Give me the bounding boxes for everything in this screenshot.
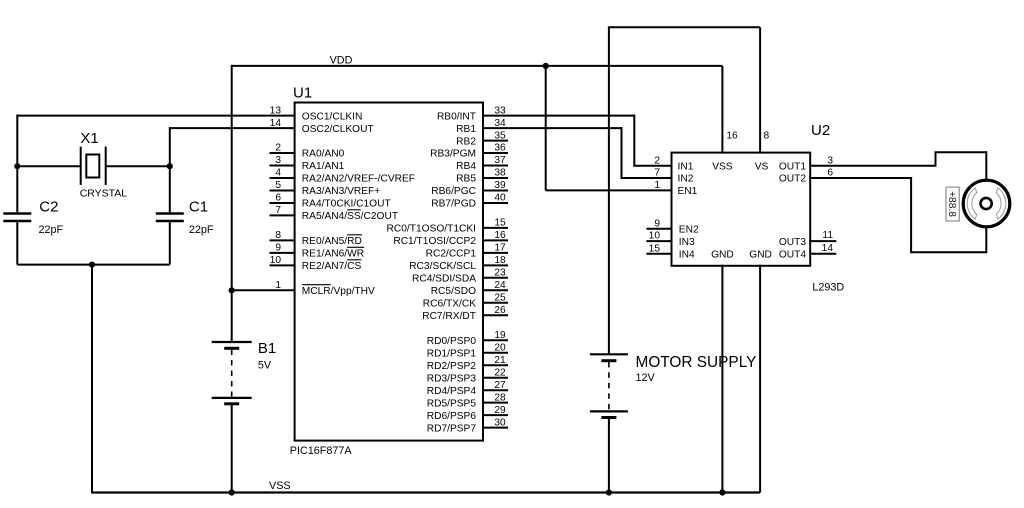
- svg-text:7: 7: [275, 205, 281, 216]
- wire VDD down to MCLR and battery B1: [231, 65, 233, 343]
- svg-text:U1: U1: [293, 85, 312, 102]
- svg-text:22pF: 22pF: [189, 224, 214, 236]
- junction capacitor bottom to VSS: [89, 262, 95, 268]
- svg-text:RC7/RX/DT: RC7/RX/DT: [422, 311, 476, 322]
- svg-text:RA0/AN0: RA0/AN0: [302, 149, 345, 160]
- svg-text:24: 24: [494, 280, 506, 291]
- svg-text:RC4/SDI/SDA: RC4/SDI/SDA: [412, 274, 476, 285]
- svg-text:25: 25: [494, 293, 506, 304]
- svg-text:RD6/PSP6: RD6/PSP6: [427, 411, 477, 422]
- svg-text:21: 21: [494, 355, 506, 366]
- U2 GND pin 2: [749, 250, 772, 493]
- U1 pin 23: [412, 268, 508, 285]
- svg-text:RB3/PGM: RB3/PGM: [430, 149, 476, 160]
- svg-text:U2: U2: [811, 122, 830, 139]
- svg-text:8: 8: [764, 131, 770, 142]
- svg-text:OUT2: OUT2: [779, 174, 807, 185]
- wire capacitor bottoms: [17, 264, 170, 266]
- battery MOTOR SUPPLY 12V: [590, 354, 756, 493]
- U1 pin 9: [270, 243, 365, 260]
- U1 pin 15: [387, 218, 508, 235]
- svg-text:EN1: EN1: [678, 186, 698, 197]
- wire OUT2 to motor: [809, 177, 986, 253]
- svg-text:7: 7: [654, 168, 660, 179]
- svg-text:6: 6: [827, 168, 833, 179]
- svg-text:RC0/T1OSO/T1CKI: RC0/T1OSO/T1CKI: [387, 224, 476, 235]
- capacitor C2: [3, 165, 63, 264]
- svg-text:2: 2: [275, 143, 281, 154]
- U1 pin 37: [456, 155, 508, 172]
- svg-text:VS: VS: [755, 161, 769, 172]
- U1 pin 14: [270, 118, 374, 135]
- U1 pin 13: [270, 105, 363, 122]
- svg-text:RD1/PSP1: RD1/PSP1: [427, 348, 477, 359]
- svg-text:10: 10: [270, 255, 282, 266]
- svg-text:29: 29: [494, 405, 506, 416]
- svg-text:VSS: VSS: [712, 161, 733, 172]
- U1 pin 4: [270, 168, 416, 185]
- svg-text:OSC1/CLKIN: OSC1/CLKIN: [302, 111, 363, 122]
- U1 pin 36: [430, 143, 508, 160]
- svg-text:RB6/PGC: RB6/PGC: [431, 186, 476, 197]
- U1 pin 39: [431, 180, 508, 197]
- U1 pin 33: [437, 105, 506, 122]
- svg-text:EN2: EN2: [679, 224, 699, 235]
- crystal X1: [80, 130, 128, 200]
- U2 pin 8 VS: [755, 27, 770, 172]
- svg-text:RB2: RB2: [456, 136, 476, 147]
- U1 pin 6: [270, 193, 391, 210]
- svg-text:RD0/PSP0: RD0/PSP0: [427, 336, 477, 347]
- U1 pin 2: [270, 143, 345, 160]
- svg-text:23: 23: [494, 268, 506, 279]
- svg-text:RE0/AN5/RD: RE0/AN5/RD: [302, 236, 362, 247]
- U1 pin 5: [270, 180, 381, 197]
- U1 pin 22: [427, 367, 508, 384]
- U1 pin 7: [270, 205, 399, 222]
- svg-text:RE1/AN6/WR: RE1/AN6/WR: [302, 249, 364, 260]
- U1 pin 18: [409, 255, 508, 272]
- svg-text:17: 17: [494, 243, 506, 254]
- svg-text:IN4: IN4: [679, 250, 695, 261]
- svg-text:RA2/AN2/VREF-/CVREF: RA2/AN2/VREF-/CVREF: [302, 174, 415, 185]
- svg-text:30: 30: [494, 417, 506, 428]
- U1 pin 38: [456, 168, 508, 185]
- U1 pin 20: [427, 342, 508, 359]
- IC U2 L293D motor driver: [672, 122, 845, 294]
- svg-text:RB4: RB4: [456, 161, 476, 172]
- svg-text:OUT1: OUT1: [779, 161, 807, 172]
- wire down to VSS rail: [91, 265, 93, 494]
- U2 pin 1 EN1: [654, 180, 697, 197]
- U1 pin 10: [270, 255, 362, 272]
- svg-text:RD4/PSP4: RD4/PSP4: [427, 386, 477, 397]
- svg-text:B1: B1: [258, 340, 276, 357]
- U1 pin 34: [456, 118, 506, 135]
- svg-text:RB1: RB1: [456, 124, 476, 135]
- svg-text:GND: GND: [749, 250, 772, 261]
- svg-text:28: 28: [494, 392, 506, 403]
- svg-text:RC1/T1OSI/CCP2: RC1/T1OSI/CCP2: [393, 236, 476, 247]
- U1 pin 3: [270, 155, 345, 172]
- svg-text:RD2/PSP2: RD2/PSP2: [427, 361, 477, 372]
- svg-text:18: 18: [494, 255, 506, 266]
- wire VDD to EN1: [546, 66, 673, 190]
- svg-text:19: 19: [494, 330, 506, 341]
- junction VDD/EN1: [543, 63, 549, 69]
- svg-text:2: 2: [654, 155, 660, 166]
- motor value display +88.8: [946, 187, 959, 221]
- U2 pin 3 OUT1: [779, 155, 834, 172]
- U1 pin 27: [427, 380, 508, 397]
- U1 pin 25: [423, 293, 508, 310]
- svg-text:+88.8: +88.8: [946, 191, 957, 217]
- svg-text:22: 22: [494, 367, 506, 378]
- U1 pin 24: [431, 280, 508, 297]
- svg-text:MOTOR SUPPLY: MOTOR SUPPLY: [636, 354, 757, 371]
- node VSS label: [269, 480, 291, 492]
- U2 pin 11 OUT3: [779, 230, 836, 248]
- svg-text:26: 26: [494, 305, 506, 316]
- svg-text:8: 8: [275, 230, 281, 241]
- junction motor supply to VSS: [606, 489, 612, 495]
- svg-text:C2: C2: [39, 199, 58, 216]
- svg-text:38: 38: [494, 168, 506, 179]
- svg-text:MCLR/Vpp/THV: MCLR/Vpp/THV: [302, 286, 375, 297]
- wire crystal right: [106, 165, 170, 167]
- svg-text:RA3/AN3/VREF+: RA3/AN3/VREF+: [302, 186, 380, 197]
- svg-text:GND: GND: [711, 250, 734, 261]
- U1 pin 17: [426, 243, 508, 260]
- svg-text:RC2/CCP1: RC2/CCP1: [426, 249, 477, 260]
- U1 pin 21: [427, 355, 508, 372]
- svg-text:20: 20: [494, 342, 506, 353]
- U1 pin 28: [427, 392, 508, 409]
- U1 pin 16: [393, 230, 508, 247]
- svg-text:16: 16: [494, 230, 506, 241]
- svg-text:CRYSTAL: CRYSTAL: [80, 188, 128, 200]
- svg-text:RD5/PSP5: RD5/PSP5: [427, 398, 477, 409]
- svg-text:11: 11: [822, 230, 833, 241]
- svg-text:35: 35: [494, 130, 506, 141]
- wire OSC2 pin 14: [170, 127, 296, 166]
- capacitor C1: [156, 165, 214, 264]
- junction GND to VSS: [719, 489, 725, 495]
- motor M1: [963, 180, 1010, 227]
- wire VSS rail (ground): [92, 491, 760, 493]
- svg-text:39: 39: [494, 180, 506, 191]
- svg-text:RB5: RB5: [456, 174, 476, 185]
- svg-text:RA5/AN4/SS/C2OUT: RA5/AN4/SS/C2OUT: [302, 211, 398, 222]
- svg-text:15: 15: [649, 243, 661, 254]
- junction B1 to VSS: [229, 489, 235, 495]
- U2 pin 14 OUT4: [779, 243, 836, 261]
- svg-text:IN1: IN1: [678, 161, 694, 172]
- svg-text:5V: 5V: [258, 360, 272, 372]
- svg-text:40: 40: [494, 193, 506, 204]
- svg-text:X1: X1: [80, 130, 98, 147]
- svg-text:RB0/INT: RB0/INT: [437, 111, 476, 122]
- svg-text:16: 16: [726, 131, 738, 142]
- node VDD label: [330, 55, 353, 67]
- svg-text:RC3/SCK/SCL: RC3/SCK/SCL: [409, 261, 476, 272]
- svg-text:37: 37: [494, 155, 506, 166]
- junction MCLR/VDD: [229, 287, 235, 293]
- wire crystal left: [17, 165, 80, 167]
- svg-text:6: 6: [275, 193, 281, 204]
- svg-text:RE2/AN7/CS: RE2/AN7/CS: [302, 261, 362, 272]
- svg-text:L293D: L293D: [812, 282, 844, 294]
- U1 pin 35: [456, 130, 508, 147]
- U1 pin 26: [422, 305, 508, 322]
- U2 pin 2 IN1: [654, 155, 693, 172]
- U1 pin 19: [427, 330, 508, 347]
- svg-text:OUT3: OUT3: [779, 237, 807, 248]
- svg-text:IN3: IN3: [679, 237, 695, 248]
- wire OUT1 to motor: [809, 151, 986, 179]
- junction crystal right: [167, 163, 173, 169]
- svg-text:1: 1: [654, 180, 660, 191]
- U1 pin 30: [427, 417, 508, 434]
- svg-text:12V: 12V: [636, 372, 656, 384]
- svg-text:RA4/T0CKI/C1OUT: RA4/T0CKI/C1OUT: [302, 199, 391, 210]
- svg-text:RA1/AN1: RA1/AN1: [302, 161, 345, 172]
- svg-text:15: 15: [494, 218, 506, 229]
- wire MCLR pin 1: [232, 289, 296, 291]
- svg-text:3: 3: [827, 155, 833, 166]
- svg-text:9: 9: [275, 243, 281, 254]
- svg-text:10: 10: [649, 231, 661, 242]
- svg-text:9: 9: [654, 218, 660, 229]
- wire RB0 pin33 to IN1: [482, 115, 673, 166]
- svg-text:3: 3: [275, 155, 281, 166]
- U1 pin 8: [270, 230, 362, 247]
- svg-text:22pF: 22pF: [39, 224, 64, 236]
- U2 pin 7 IN2: [654, 168, 693, 185]
- svg-text:14: 14: [822, 243, 834, 254]
- svg-text:RD7/PSP7: RD7/PSP7: [427, 423, 477, 434]
- svg-text:RC5/SDO: RC5/SDO: [431, 286, 476, 297]
- IC U1 PIC16F877A microcontroller: [290, 85, 483, 458]
- U1 pin 40: [431, 193, 508, 210]
- svg-text:5: 5: [275, 180, 281, 191]
- svg-text:RC6/TX/CK: RC6/TX/CK: [423, 299, 476, 310]
- U2 pin 6 OUT2: [779, 168, 834, 185]
- wire RB1 pin34 to IN2: [482, 127, 673, 178]
- svg-text:4: 4: [275, 168, 281, 179]
- svg-text:IN2: IN2: [678, 174, 694, 185]
- wire OSC1 pin 13: [17, 115, 295, 167]
- svg-text:27: 27: [494, 380, 506, 391]
- svg-text:36: 36: [494, 143, 506, 154]
- U2 pin 9 EN2: [646, 218, 699, 235]
- svg-text:OUT4: OUT4: [779, 250, 807, 261]
- U2 pin 15 IN4: [646, 243, 695, 260]
- svg-text:RD3/PSP3: RD3/PSP3: [427, 373, 477, 384]
- svg-text:VDD: VDD: [330, 55, 353, 67]
- svg-text:RB7/PGD: RB7/PGD: [431, 199, 476, 210]
- battery B1 5V: [212, 340, 277, 494]
- U2 GND pin 1: [711, 250, 734, 493]
- U2 pin 16 VSS: [712, 66, 738, 172]
- U2 pin 10 IN3: [646, 231, 695, 248]
- U1 pin 29: [427, 405, 508, 422]
- wire VDD rail: [232, 65, 723, 67]
- U1 pin 1: [275, 280, 375, 297]
- svg-text:VSS: VSS: [269, 480, 291, 492]
- wire motor supply + to VS: [608, 27, 760, 354]
- svg-text:C1: C1: [189, 199, 208, 216]
- svg-text:PIC16F877A: PIC16F877A: [290, 445, 353, 457]
- svg-text:OSC2/CLKOUT: OSC2/CLKOUT: [302, 124, 374, 135]
- junction crystal left: [14, 163, 20, 169]
